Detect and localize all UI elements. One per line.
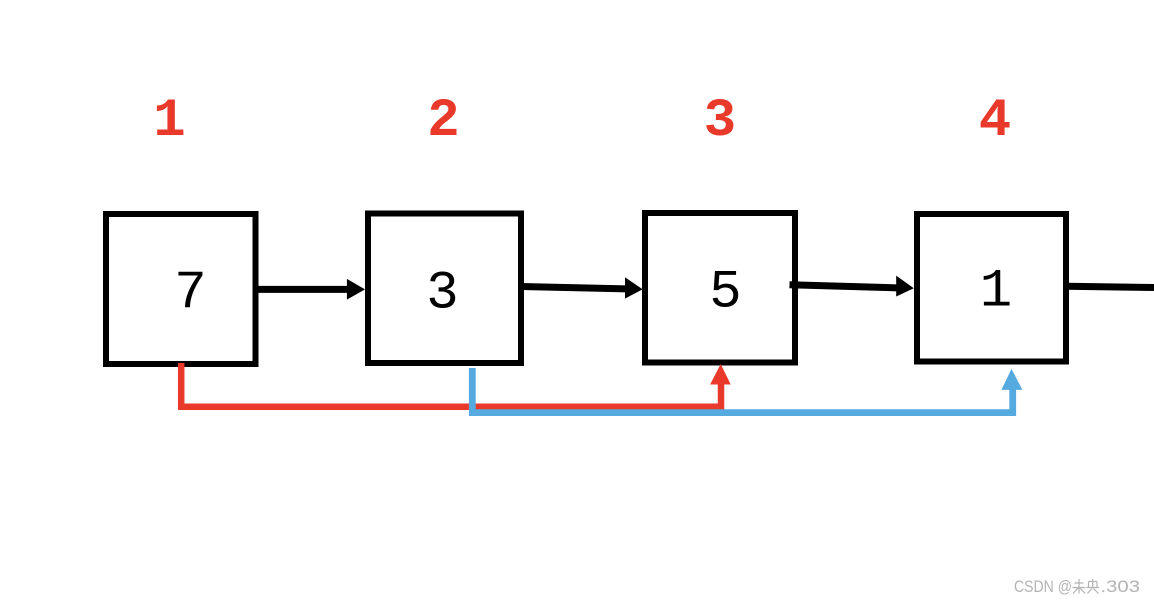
next-pointer arrow box1 to box2 — [257, 279, 365, 300]
svg-text:3: 3 — [704, 91, 736, 152]
next-pointer arrow box3 to box4 — [790, 276, 914, 297]
blue pointer from box2 bottom to box4 bottom — [472, 368, 1022, 413]
next-pointer arrow box4 to right edge — [1066, 286, 1154, 287]
next-pointer arrow box2 to box3 — [521, 277, 643, 298]
node box 3 (value 5) — [645, 213, 795, 363]
svg-text:2: 2 — [427, 91, 459, 152]
svg-text:.303: .303 — [1101, 577, 1141, 596]
央 glyph strokes — [1087, 579, 1100, 594]
node index label 3 — [704, 91, 736, 152]
svg-text:3: 3 — [426, 264, 458, 325]
svg-text:CSDN @: CSDN @ — [1014, 577, 1072, 596]
svg-text:5: 5 — [709, 263, 741, 324]
svg-text:7: 7 — [174, 263, 206, 324]
svg-text:1: 1 — [980, 262, 1012, 323]
node box 1 (value 7) — [106, 214, 256, 364]
svg-text:4: 4 — [979, 91, 1011, 152]
node index label 4 — [979, 91, 1011, 152]
node box 2 (value 3) — [368, 214, 521, 364]
node index label 1 — [153, 91, 185, 152]
svg-text:1: 1 — [153, 91, 185, 152]
未 glyph strokes — [1073, 579, 1086, 594]
node box 4 (value 1) — [917, 214, 1066, 362]
watermark CSDN @未央.303 — [1014, 577, 1140, 596]
node index label 2 — [427, 91, 459, 152]
red pointer from box1 bottom to box3 bottom — [181, 363, 731, 407]
